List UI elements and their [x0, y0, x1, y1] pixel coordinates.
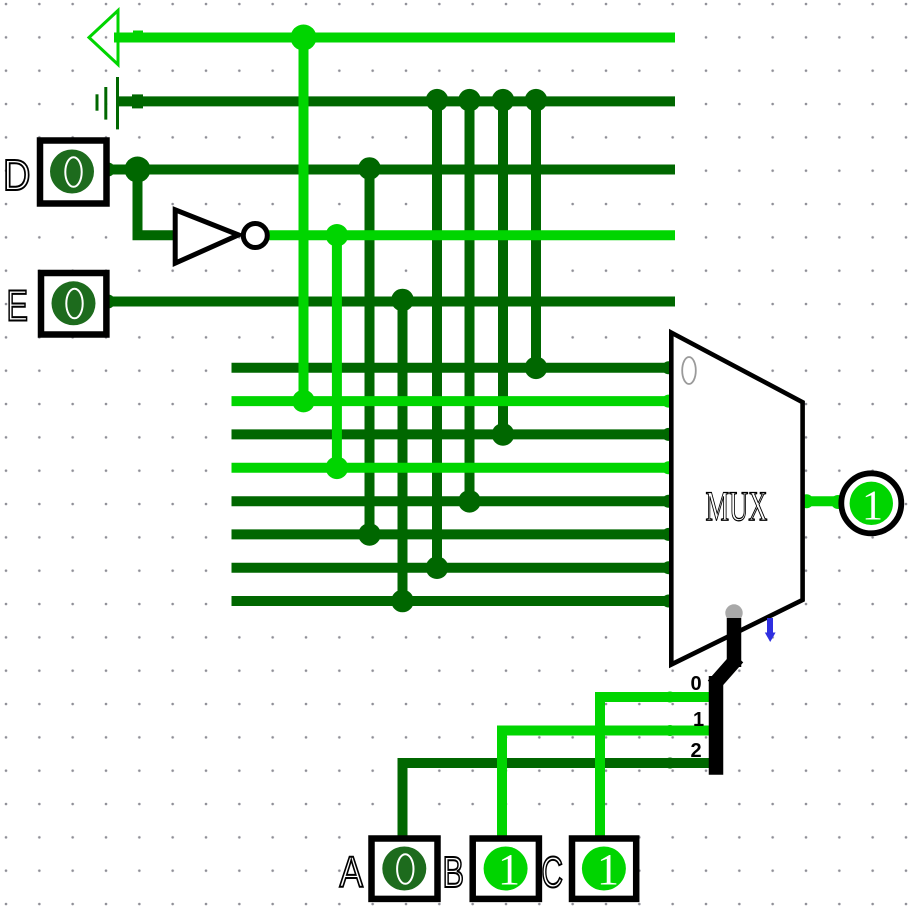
- inverter NOT gate U1: [175, 210, 267, 263]
- node junction ground wire 3: [492, 89, 515, 112]
- node mux output connection nub: [800, 494, 814, 508]
- svg-text:2: 2: [691, 740, 702, 762]
- node junction on D wire at vertical: [358, 157, 381, 180]
- node stub1 wire joint: [665, 725, 676, 736]
- wire power net horizontal: [114, 33, 675, 43]
- node junction on power wire: [291, 25, 317, 51]
- node mux input 0 connection nub: [662, 361, 675, 374]
- wire vertical NOT output to row 4: [332, 235, 342, 467]
- wire vertical E to row 8: [398, 302, 408, 602]
- node junction row 6: [358, 523, 381, 546]
- input pin A: [372, 839, 438, 899]
- wire mux input row 6: [232, 529, 676, 539]
- input pin D: [40, 141, 107, 204]
- wire mux input row 1: [232, 363, 676, 373]
- input pin E: [41, 273, 106, 335]
- svg-text:C: C: [542, 848, 564, 897]
- svg-text:A: A: [340, 848, 364, 897]
- svg-text:D: D: [3, 151, 31, 200]
- node junction ground wire 1: [426, 89, 449, 112]
- svg-text:MUX: MUX: [706, 485, 768, 531]
- node select point grey dot: [725, 604, 742, 621]
- node mux input 1 connection nub: [662, 395, 675, 408]
- wire mux input row 4: [232, 463, 676, 473]
- node output pin connection nub: [831, 495, 845, 509]
- wire select bus black vertical: [727, 618, 742, 667]
- wire D branch horizontal to NOT gate input: [133, 230, 175, 240]
- output pin LED: [841, 473, 901, 533]
- node mux input 4 connection nub: [662, 495, 675, 508]
- wire mux input row 7: [232, 563, 676, 573]
- node junction row 2: [292, 390, 315, 413]
- wire select bit2 horizontal from splitter: [403, 758, 715, 768]
- svg-text:1: 1: [498, 845, 520, 894]
- wire D branch vertical to NOT gate: [133, 170, 143, 236]
- wire mux input row 8: [232, 596, 676, 606]
- node stub0 wire joint: [665, 692, 676, 703]
- node junction row 8: [391, 590, 414, 613]
- node junction ground wire 2: [458, 89, 481, 112]
- splitter spine: [709, 676, 724, 775]
- wire enable stub floating blue: [765, 618, 776, 642]
- node junction on D wire at NOT branch: [125, 157, 151, 183]
- wire power lead bump: [133, 31, 143, 41]
- wire vertical ground to row 5: [465, 101, 475, 501]
- wire mux output to pin: [803, 496, 843, 506]
- wire mux input row 3: [232, 429, 676, 439]
- node mux input 2 connection nub: [662, 428, 675, 441]
- input pin B: [473, 839, 539, 899]
- node mux input 6 connection nub: [662, 561, 675, 574]
- node pin D connection nub: [101, 163, 115, 177]
- svg-text:1: 1: [862, 484, 883, 530]
- node junction ground wire 4: [525, 89, 548, 112]
- node junction on NOT output wire: [326, 224, 349, 247]
- node stub2 wire joint: [665, 758, 676, 769]
- label 0 input marker inside MUX: [682, 357, 696, 384]
- node junction row 1: [525, 357, 548, 380]
- wire vertical ground to row 3: [498, 101, 508, 434]
- wire vertical power to row 2: [299, 38, 309, 402]
- multiplexer MUX body: [671, 333, 802, 665]
- power symbol V1: [89, 11, 118, 65]
- node mux input 7 connection nub: [662, 595, 675, 608]
- wire D net horizontal: [109, 165, 675, 175]
- node pin E connection nub: [101, 295, 115, 309]
- svg-text:1: 1: [693, 709, 704, 731]
- node mux input 5 connection nub: [662, 528, 675, 541]
- svg-text:B: B: [443, 848, 465, 897]
- wire select bus diagonal into splitter: [718, 663, 733, 680]
- wire select bit1 vertical to pin B: [497, 731, 507, 839]
- wire select bit1 horizontal from splitter: [502, 726, 714, 736]
- wire vertical ground to row 7: [432, 101, 442, 567]
- node junction row 3: [492, 423, 515, 446]
- ground symbol: [97, 77, 118, 129]
- wire ground net horizontal: [116, 96, 675, 106]
- wire vertical ground to row 1: [531, 101, 541, 367]
- wire select bit2 vertical to pin A: [398, 763, 408, 838]
- wire NOT output horizontal: [269, 230, 675, 240]
- wire select bit0 horizontal from splitter: [600, 692, 714, 702]
- svg-text:E: E: [7, 282, 29, 331]
- node junction on E wire at vertical: [391, 289, 414, 312]
- wire vertical D to row 6: [365, 170, 375, 535]
- wire E net horizontal: [108, 297, 675, 307]
- wire mux input row 2: [232, 396, 676, 406]
- wire ground lead bump: [132, 94, 143, 108]
- node mux input 3 connection nub: [662, 461, 675, 474]
- svg-text:0: 0: [691, 673, 702, 695]
- svg-text:1: 1: [597, 845, 619, 894]
- node junction row 5: [458, 490, 481, 513]
- wire select bit0 vertical to pin C: [595, 697, 605, 838]
- node junction row 4: [326, 457, 349, 480]
- input pin C: [572, 839, 636, 899]
- wire mux input row 5: [232, 496, 676, 506]
- node junction row 7: [426, 556, 449, 579]
